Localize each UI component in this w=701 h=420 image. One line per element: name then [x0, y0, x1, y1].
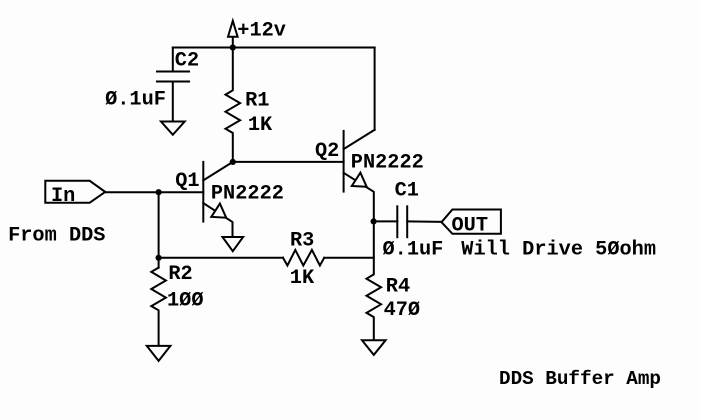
svg-text:Will Drive 5Øohm: Will Drive 5Øohm — [461, 239, 656, 262]
svg-text:PN2222: PN2222 — [211, 182, 284, 205]
svg-text:R1: R1 — [245, 89, 269, 112]
svg-text:1K: 1K — [290, 267, 315, 290]
svg-text:OUT: OUT — [452, 214, 489, 237]
svg-text:Ø.1uF: Ø.1uF — [383, 239, 444, 262]
svg-text:C2: C2 — [175, 50, 199, 73]
svg-text:1ØØ: 1ØØ — [167, 289, 204, 312]
svg-text:PN2222: PN2222 — [351, 152, 424, 175]
svg-text:1K: 1K — [248, 114, 273, 137]
svg-text:R3: R3 — [290, 230, 314, 253]
svg-text:C1: C1 — [395, 180, 419, 203]
svg-text:47Ø: 47Ø — [384, 299, 421, 322]
svg-text:+12v: +12v — [237, 19, 286, 42]
svg-text:Q2: Q2 — [315, 140, 339, 163]
svg-text:R2: R2 — [168, 263, 192, 286]
svg-text:DDS Buffer Amp: DDS Buffer Amp — [499, 368, 661, 390]
svg-text:Q1: Q1 — [175, 170, 199, 193]
svg-text:In: In — [51, 185, 75, 208]
svg-text:From DDS: From DDS — [8, 224, 105, 247]
svg-text:R4: R4 — [386, 275, 410, 298]
svg-text:Ø.1uF: Ø.1uF — [105, 88, 166, 111]
